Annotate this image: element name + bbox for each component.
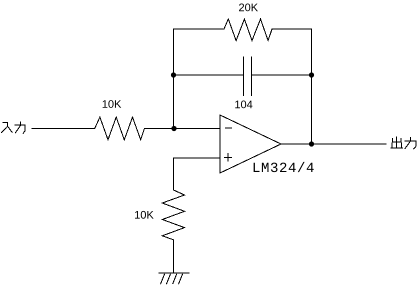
wire capacitor left [174, 74, 244, 76]
label 出力 output kanji [391, 137, 403, 148]
label 入力 input kanji [2, 122, 13, 132]
node B junction dot capacitor right [309, 72, 314, 77]
label 20K [239, 4, 258, 12]
wire feedback left vertical [173, 29, 175, 129]
label LM324/4 [254, 162, 314, 172]
wire output [281, 143, 386, 145]
label 104 [235, 101, 252, 109]
wire non-inverting vertical down [173, 158, 175, 190]
wire feedback top-right horizontal [272, 28, 312, 30]
capacitor C1 plates [244, 57, 252, 96]
node D junction dot output [309, 141, 314, 146]
wire input lead [32, 128, 95, 130]
node A junction dot capacitor left [171, 72, 176, 77]
resistor R3 10K to ground [162, 190, 184, 240]
label 10K ground resistor [135, 211, 154, 219]
wire feedback right vertical [311, 29, 313, 144]
wire resistor to ground [173, 240, 175, 273]
op-amp U1 triangle [220, 115, 281, 173]
resistor R1 10K input [95, 117, 145, 140]
node C junction dot inverting input [171, 126, 176, 131]
wire to inverting input [144, 128, 220, 130]
wire non-inverting input horizontal [174, 157, 221, 159]
resistor R2 20K [224, 19, 272, 41]
wire feedback top-left horizontal [174, 28, 225, 30]
wire capacitor right [252, 74, 312, 76]
ground [159, 273, 189, 284]
op-amp minus sign [225, 127, 231, 129]
label 10K input [103, 100, 122, 108]
op-amp plus sign [225, 154, 232, 161]
